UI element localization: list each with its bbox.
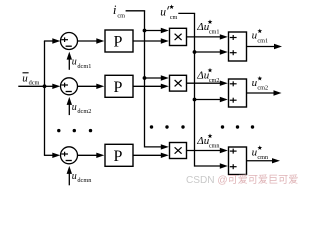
multiplier M1 (box with x) bbox=[170, 28, 187, 45]
wire adder A1 output u_cm1* with arrow bbox=[247, 44, 283, 49]
wire u_dcm distribution bus vertical bbox=[44, 41, 46, 155]
wire i_cm branch into multiplier Mn top input with arrow bbox=[145, 144, 169, 149]
junction dot i_cm row 1 bbox=[143, 29, 147, 33]
ellipsis dots middle column bbox=[150, 125, 185, 128]
svg-text:P: P bbox=[114, 34, 123, 51]
svg-text:u: u bbox=[22, 73, 28, 85]
svg-text:cm1: cm1 bbox=[257, 37, 268, 44]
svg-text:dcm2: dcm2 bbox=[77, 108, 91, 115]
wire u_cm* distribution vertical bbox=[194, 13, 196, 166]
svg-text:Δu: Δu bbox=[196, 70, 209, 82]
P controller block row 1 bbox=[105, 30, 133, 52]
svg-text:cmn: cmn bbox=[209, 143, 220, 150]
svg-text:u: u bbox=[72, 171, 77, 182]
node u_dcmn feedback label bbox=[72, 171, 93, 184]
svg-text:cmn: cmn bbox=[257, 154, 268, 161]
node u_cmn* output label bbox=[252, 145, 268, 161]
wire i_cm branch into multiplier M2 top input with arrow bbox=[145, 75, 169, 80]
svg-text:cm2: cm2 bbox=[257, 85, 268, 92]
svg-text:cm2: cm2 bbox=[209, 77, 220, 84]
P controller block row 2 bbox=[105, 75, 133, 97]
svg-text:dcm: dcm bbox=[29, 80, 40, 87]
junction dot u_cm* row 1 bbox=[193, 50, 197, 54]
ellipsis dots left column bbox=[57, 129, 92, 132]
wire u_cm* branch into adder A1 second input with arrow bbox=[195, 49, 228, 54]
svg-text:P: P bbox=[114, 79, 123, 96]
wire multiplier M1 to adder A1 with arrow bbox=[187, 34, 228, 39]
node u_dcm reference input label bbox=[22, 73, 39, 87]
summer Sn (circle with plus and minus) bbox=[61, 147, 78, 164]
wire summer Sn to P block with arrow bbox=[78, 153, 105, 158]
watermark text bbox=[186, 173, 298, 186]
wire P block to multiplier M2 with arrow bbox=[133, 84, 169, 89]
svg-text:cm: cm bbox=[117, 12, 125, 19]
wire feedback u_dcm1 into summer S1 bottom with arrow bbox=[67, 52, 72, 70]
summer S2 (circle with plus and minus) bbox=[61, 78, 78, 95]
wire P block to multiplier M1 with arrow bbox=[133, 38, 169, 43]
node u_cm1* output label bbox=[252, 29, 268, 45]
svg-text:Δu: Δu bbox=[196, 21, 209, 33]
wire adder A2 output u_cm2* with arrow bbox=[247, 90, 282, 95]
wire multiplier M2 to adder A2 with arrow bbox=[187, 81, 228, 86]
svg-text:i: i bbox=[113, 2, 117, 17]
summer S1 (circle with plus and minus) bbox=[61, 33, 78, 50]
svg-text:u: u bbox=[72, 57, 77, 68]
adder A2 (box with two plus signs) bbox=[229, 79, 247, 107]
wire u_dcm input horizontal bbox=[18, 85, 44, 87]
junction dot i_cm row 2 bbox=[143, 76, 147, 80]
ellipsis dots right column bbox=[221, 125, 254, 128]
wire i_cm horizontal bbox=[126, 10, 146, 12]
wire adder An output u_cmn* with arrow bbox=[247, 158, 281, 163]
wire P block to multiplier Mn with arrow bbox=[133, 153, 169, 158]
wire u_cm* branch into adder A2 second input with arrow bbox=[195, 97, 228, 102]
node Delta u_cmn* label bbox=[196, 134, 219, 150]
adder A1 (box with two plus signs) bbox=[229, 32, 247, 61]
svg-text:Δu: Δu bbox=[196, 135, 209, 147]
multiplier M2 (box with x) bbox=[170, 75, 187, 91]
adder An (box with two plus signs) bbox=[229, 147, 247, 175]
wire bus to summer S2 with arrow bbox=[44, 84, 60, 89]
wire i_cm distribution vertical bbox=[144, 11, 146, 148]
P controller block row n bbox=[105, 144, 133, 166]
wire feedback u_dcmn into summer Sn bottom with arrow bbox=[67, 166, 72, 185]
node Delta u_cm1* label bbox=[196, 20, 219, 36]
wire bus to summer S1 with arrow bbox=[44, 38, 60, 43]
wire multiplier Mn to adder An with arrow bbox=[187, 148, 228, 153]
svg-text:u: u bbox=[72, 102, 77, 113]
svg-text:CSDN @可爱可爱巨可爱: CSDN @可爱可爱巨可爱 bbox=[186, 173, 298, 186]
wire summer S2 to P block with arrow bbox=[78, 84, 105, 89]
svg-text:dcm1: dcm1 bbox=[77, 63, 91, 70]
node u_cm* reference label bbox=[160, 5, 177, 22]
node Delta u_cm2* label bbox=[196, 68, 219, 84]
wire feedback u_dcm2 into summer S2 bottom with arrow bbox=[67, 97, 72, 115]
node u_dcm1 feedback label bbox=[72, 57, 92, 70]
node u_cm2* output label bbox=[252, 76, 268, 92]
junction dot on u_dcm bus bbox=[43, 84, 47, 88]
node i_cm current label bbox=[113, 2, 125, 19]
wire u_cm* branch into adder An second input with arrow bbox=[195, 163, 228, 168]
wire summer S1 to P block with arrow bbox=[78, 38, 105, 43]
svg-text:cm1: cm1 bbox=[209, 29, 220, 36]
multiplier Mn (box with x) bbox=[170, 143, 187, 159]
wire u_cm* horizontal bbox=[178, 12, 195, 14]
svg-text:dcmn: dcmn bbox=[77, 177, 92, 184]
wire i_cm branch into multiplier M1 top input with arrow bbox=[145, 28, 169, 33]
wire bus to summer Sn with arrow bbox=[44, 153, 60, 158]
svg-text:u: u bbox=[160, 7, 166, 19]
node u_dcm2 feedback label bbox=[72, 102, 92, 115]
svg-text:P: P bbox=[114, 148, 123, 165]
junction dot u_cm* row 2 bbox=[193, 98, 197, 102]
svg-text:cm: cm bbox=[170, 14, 178, 21]
